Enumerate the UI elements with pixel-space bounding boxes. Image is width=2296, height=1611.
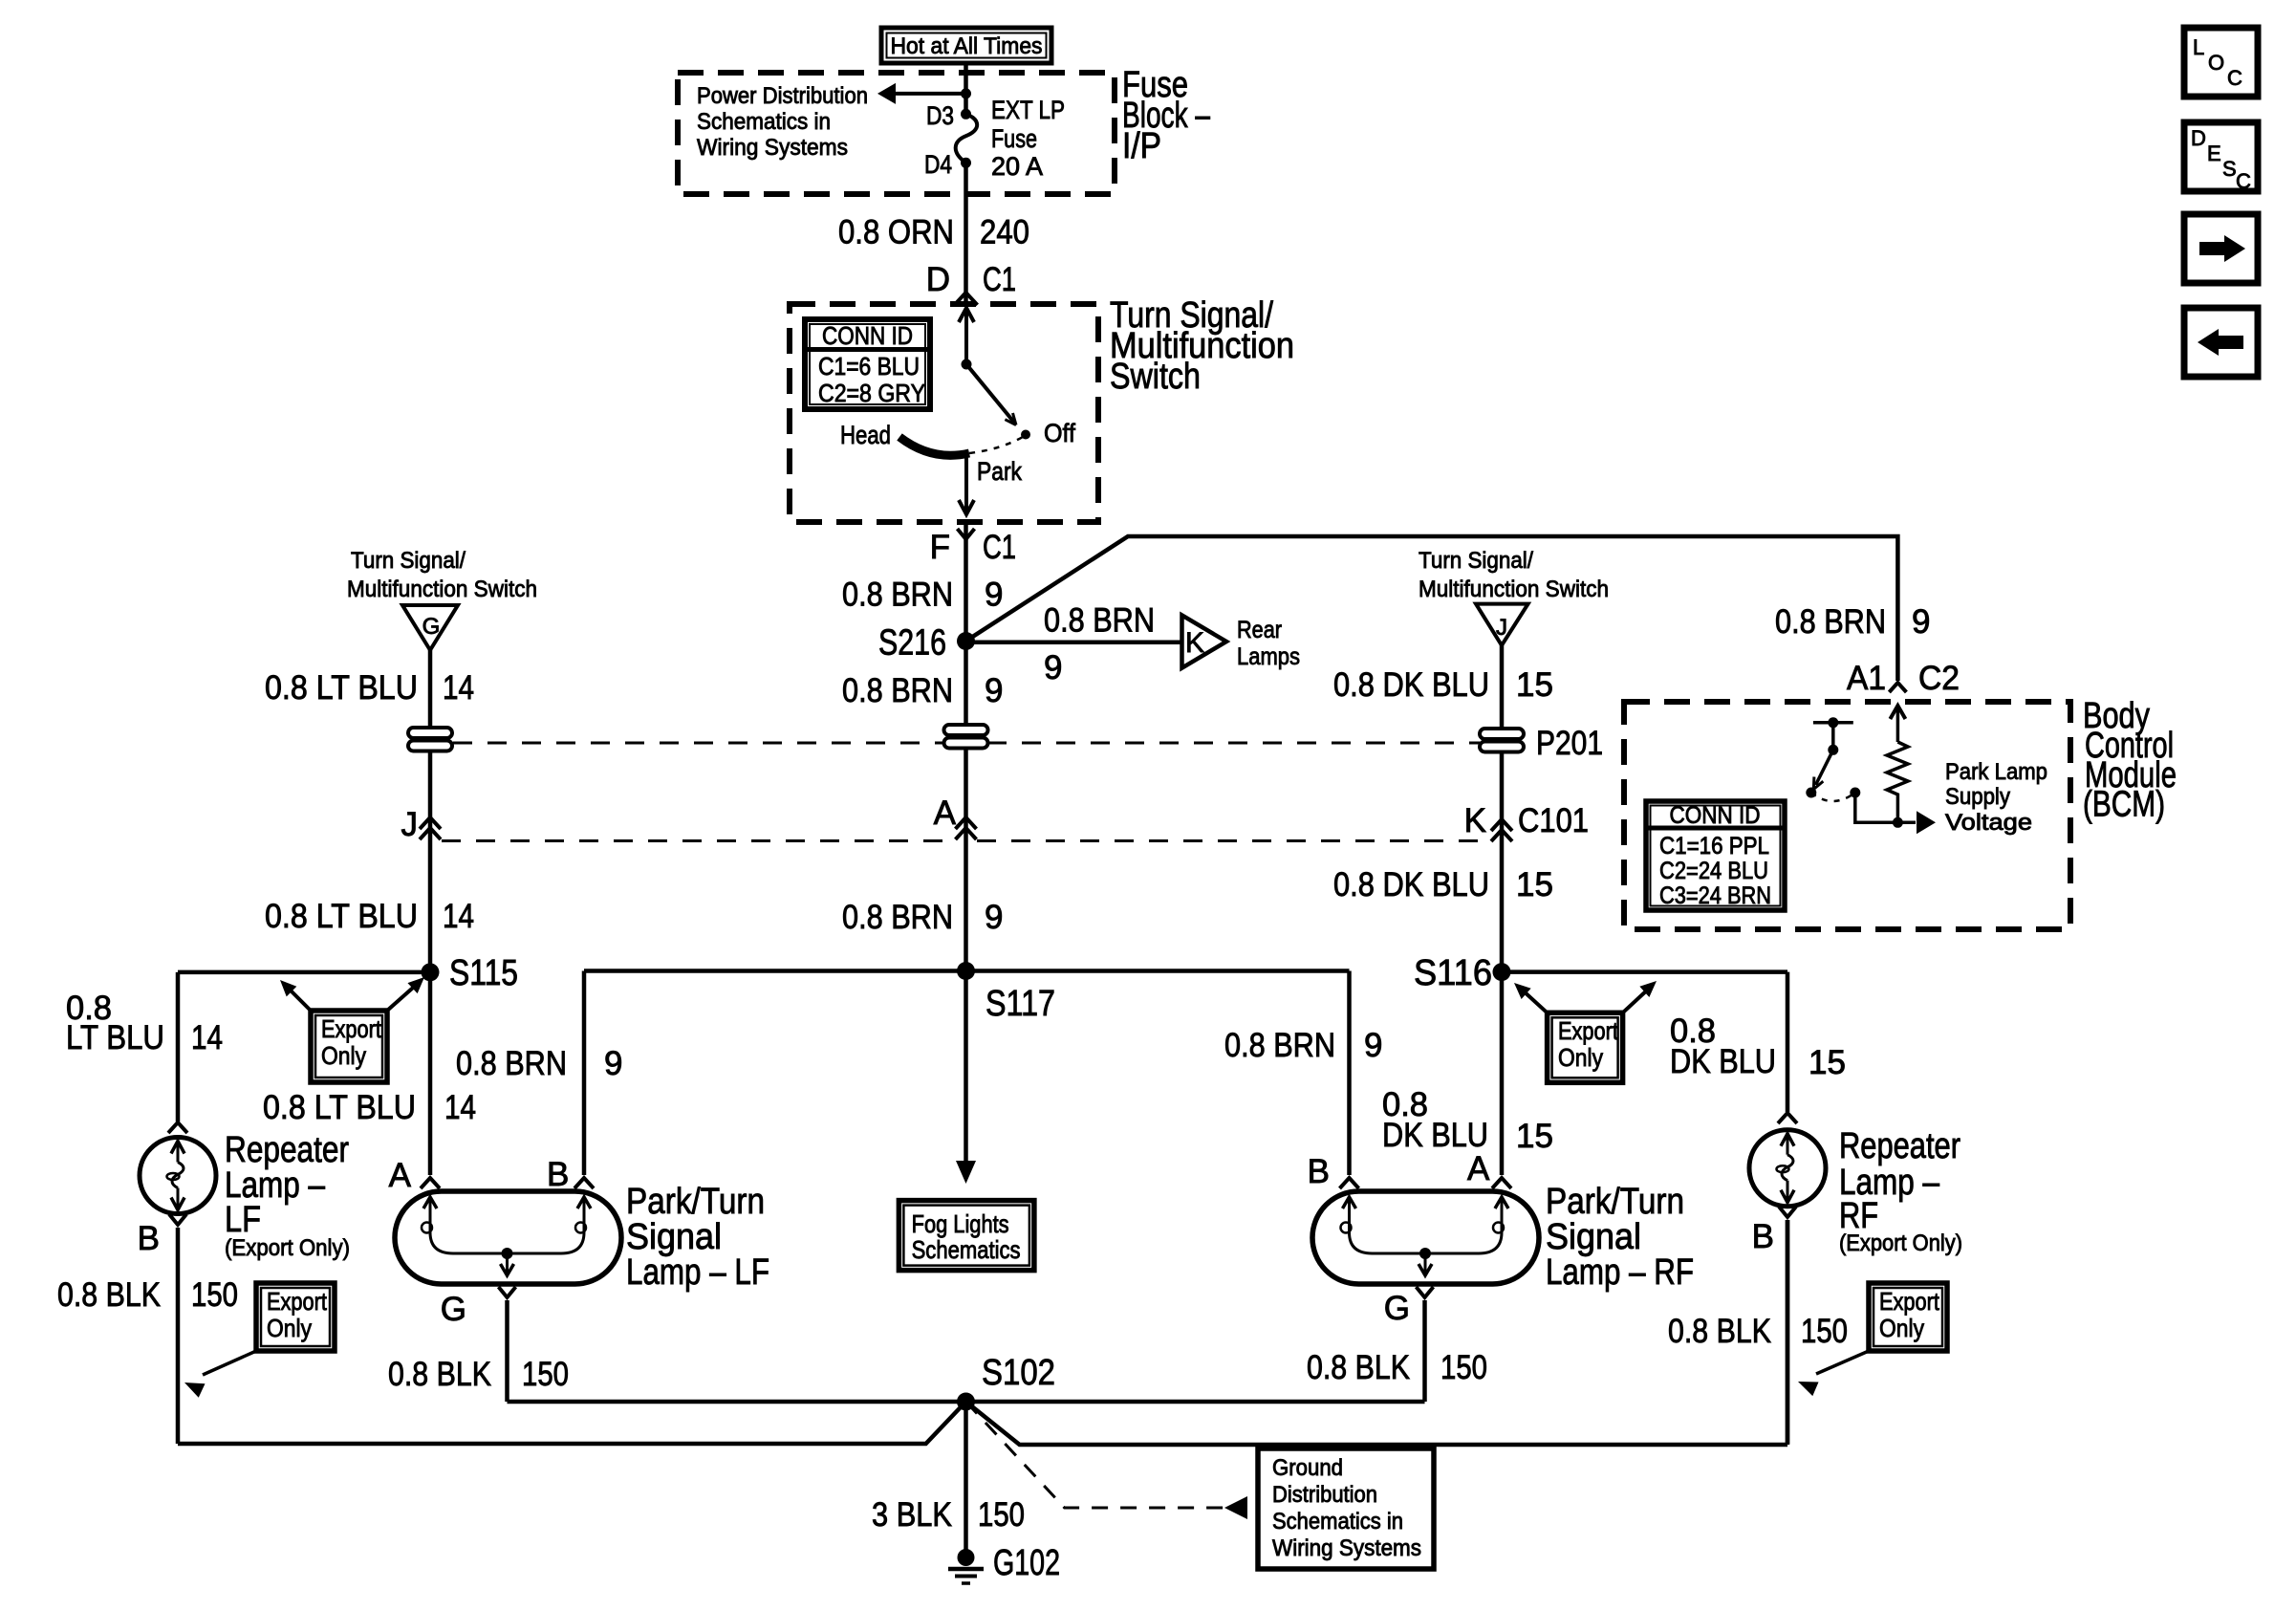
svg-text:9: 9: [985, 672, 1003, 709]
svg-text:0.8 DK BLU: 0.8 DK BLU: [1333, 866, 1489, 903]
svg-text:B: B: [138, 1220, 160, 1257]
svg-text:Fog Lights: Fog Lights: [912, 1209, 1009, 1238]
svg-text:Repeater: Repeater: [225, 1130, 349, 1170]
svg-text:D3: D3: [926, 101, 954, 130]
svg-text:0.8 BRN: 0.8 BRN: [1044, 602, 1155, 640]
svg-text:15: 15: [1516, 666, 1553, 704]
svg-text:Ground: Ground: [1272, 1455, 1343, 1481]
svg-text:Multifunction Switch: Multifunction Switch: [347, 577, 537, 602]
svg-text:S: S: [2222, 157, 2237, 181]
svg-text:0.8 BRN: 0.8 BRN: [456, 1045, 567, 1082]
svg-text:Off: Off: [1044, 419, 1075, 447]
svg-text:DK BLU: DK BLU: [1670, 1043, 1776, 1080]
svg-text:0.8 BLK: 0.8 BLK: [388, 1356, 491, 1393]
svg-text:C1=6 BLU: C1=6 BLU: [818, 352, 920, 381]
svg-text:C2: C2: [1918, 660, 1960, 697]
svg-text:C: C: [2227, 66, 2242, 90]
svg-text:15: 15: [1516, 866, 1553, 903]
svg-text:(Export Only): (Export Only): [1839, 1230, 1962, 1256]
svg-text:0.8 BRN: 0.8 BRN: [842, 577, 953, 614]
svg-text:S216: S216: [878, 623, 946, 664]
svg-text:14: 14: [443, 898, 474, 935]
svg-text:Power Distribution: Power Distribution: [697, 83, 868, 109]
svg-text:S115: S115: [449, 953, 518, 993]
svg-text:20 A: 20 A: [991, 152, 1043, 181]
svg-text:S102: S102: [982, 1353, 1055, 1393]
svg-text:Voltage: Voltage: [1945, 810, 2032, 836]
svg-text:Signal: Signal: [1546, 1217, 1641, 1257]
svg-text:CONN ID: CONN ID: [822, 321, 913, 350]
svg-text:Park/Turn: Park/Turn: [626, 1182, 765, 1222]
svg-text:14: 14: [444, 1089, 476, 1126]
svg-text:Export: Export: [321, 1014, 382, 1043]
svg-text:Switch: Switch: [1110, 357, 1201, 397]
svg-text:A: A: [1467, 1150, 1490, 1187]
svg-text:EXT LP: EXT LP: [991, 96, 1065, 124]
svg-text:9: 9: [1044, 649, 1062, 686]
svg-text:D4: D4: [924, 150, 952, 179]
svg-text:0.8 DK BLU: 0.8 DK BLU: [1333, 666, 1489, 704]
svg-text:K: K: [1185, 627, 1204, 659]
svg-text:A1: A1: [1847, 660, 1886, 697]
svg-text:C3=24 BRN: C3=24 BRN: [1659, 882, 1771, 909]
svg-text:0.8 LT BLU: 0.8 LT BLU: [263, 1089, 416, 1126]
svg-text:G: G: [1384, 1290, 1410, 1327]
svg-text:Repeater: Repeater: [1839, 1126, 1960, 1166]
svg-text:0.8 BLK: 0.8 BLK: [57, 1276, 161, 1314]
svg-text:C2=8 GRY: C2=8 GRY: [818, 379, 925, 407]
svg-text:Schematics in: Schematics in: [697, 109, 831, 135]
svg-text:150: 150: [1801, 1313, 1848, 1350]
svg-text:Park: Park: [977, 457, 1022, 486]
svg-text:0.8 BRN: 0.8 BRN: [1224, 1027, 1335, 1064]
svg-text:Only: Only: [1558, 1043, 1603, 1072]
svg-text:Export: Export: [1879, 1287, 1940, 1316]
svg-text:0.8 BRN: 0.8 BRN: [842, 672, 953, 709]
svg-text:B: B: [1752, 1218, 1774, 1255]
svg-text:L: L: [2193, 35, 2204, 59]
svg-text:14: 14: [191, 1019, 223, 1056]
svg-text:G: G: [422, 614, 441, 640]
svg-text:Schematics in: Schematics in: [1272, 1509, 1403, 1535]
svg-text:C1=16 PPL: C1=16 PPL: [1659, 833, 1769, 860]
svg-text:150: 150: [191, 1276, 238, 1314]
svg-text:Signal: Signal: [626, 1217, 722, 1257]
svg-text:Export: Export: [1558, 1016, 1619, 1045]
svg-text:14: 14: [443, 669, 474, 707]
svg-text:150: 150: [522, 1356, 569, 1393]
svg-text:Only: Only: [1879, 1314, 1924, 1342]
svg-text:A: A: [389, 1157, 412, 1194]
svg-text:Turn Signal/: Turn Signal/: [1419, 548, 1533, 574]
svg-text:E: E: [2207, 142, 2221, 165]
svg-text:0.8 BLK: 0.8 BLK: [1668, 1313, 1771, 1350]
svg-text:9: 9: [985, 899, 1003, 936]
svg-text:Turn Signal/: Turn Signal/: [351, 548, 466, 574]
svg-text:150: 150: [978, 1496, 1025, 1534]
svg-text:D: D: [926, 261, 950, 298]
svg-text:Multifunction Switch: Multifunction Switch: [1419, 577, 1609, 602]
svg-text:C2=24 BLU: C2=24 BLU: [1659, 858, 1768, 884]
svg-text:9: 9: [1912, 603, 1930, 641]
svg-text:CONN ID: CONN ID: [1670, 802, 1761, 829]
svg-text:150: 150: [1440, 1349, 1487, 1386]
svg-text:0.8 BLK: 0.8 BLK: [1307, 1349, 1410, 1386]
svg-text:(Export Only): (Export Only): [225, 1235, 350, 1261]
svg-text:3 BLK: 3 BLK: [872, 1496, 952, 1534]
svg-text:C1: C1: [983, 529, 1016, 566]
svg-text:B: B: [1308, 1153, 1330, 1190]
svg-text:Lamp – LF: Lamp – LF: [626, 1252, 769, 1293]
svg-text:Rear: Rear: [1237, 617, 1282, 643]
svg-text:LF: LF: [225, 1200, 261, 1240]
svg-text:Lamp – RF: Lamp – RF: [1546, 1252, 1694, 1293]
svg-text:O: O: [2208, 51, 2224, 75]
svg-text:K: K: [1464, 802, 1486, 839]
svg-text:15: 15: [1516, 1118, 1553, 1155]
svg-text:Hot at All Times: Hot at All Times: [891, 33, 1043, 59]
svg-text:0.8 BRN: 0.8 BRN: [1775, 603, 1886, 641]
svg-text:Wiring Systems: Wiring Systems: [697, 135, 848, 161]
svg-text:D: D: [2191, 126, 2206, 150]
svg-text:0.8 LT BLU: 0.8 LT BLU: [265, 669, 418, 707]
svg-text:C1: C1: [983, 261, 1016, 298]
svg-text:B: B: [547, 1156, 569, 1193]
svg-text:Park/Turn: Park/Turn: [1546, 1182, 1684, 1222]
svg-text:9: 9: [604, 1045, 622, 1082]
svg-text:LT BLU: LT BLU: [66, 1019, 164, 1056]
svg-text:G102: G102: [993, 1543, 1060, 1583]
svg-text:DK BLU: DK BLU: [1382, 1117, 1488, 1154]
svg-text:S116: S116: [1414, 953, 1492, 993]
svg-text:F: F: [930, 529, 950, 566]
svg-text:C101: C101: [1518, 802, 1589, 839]
svg-text:J: J: [1496, 615, 1507, 641]
svg-text:Wiring Systems: Wiring Systems: [1272, 1535, 1421, 1561]
svg-text:S117: S117: [986, 984, 1055, 1024]
svg-text:(BCM): (BCM): [2083, 785, 2165, 825]
svg-text:0.8 BRN: 0.8 BRN: [842, 899, 953, 936]
svg-text:9: 9: [1364, 1027, 1382, 1064]
svg-text:240: 240: [980, 214, 1029, 251]
svg-text:15: 15: [1809, 1044, 1846, 1081]
svg-text:Schematics: Schematics: [912, 1235, 1021, 1264]
svg-text:Head: Head: [840, 421, 891, 449]
svg-text:J: J: [401, 806, 419, 843]
svg-text:I/P: I/P: [1122, 126, 1161, 166]
svg-text:A: A: [934, 795, 957, 832]
svg-text:0.8 LT BLU: 0.8 LT BLU: [265, 898, 418, 935]
svg-text:P201: P201: [1536, 725, 1603, 762]
svg-text:G: G: [441, 1291, 466, 1328]
svg-text:9: 9: [985, 577, 1003, 614]
svg-text:Fuse: Fuse: [991, 124, 1037, 153]
svg-text:Distribution: Distribution: [1272, 1482, 1377, 1508]
svg-text:Lamps: Lamps: [1237, 643, 1300, 670]
svg-text:Supply: Supply: [1945, 784, 2010, 810]
svg-text:Park Lamp: Park Lamp: [1945, 759, 2047, 785]
svg-text:Only: Only: [267, 1314, 312, 1342]
svg-text:Only: Only: [321, 1041, 366, 1070]
svg-text:Export: Export: [267, 1287, 328, 1316]
svg-text:C: C: [2236, 169, 2251, 193]
svg-text:0.8 ORN: 0.8 ORN: [838, 214, 954, 251]
